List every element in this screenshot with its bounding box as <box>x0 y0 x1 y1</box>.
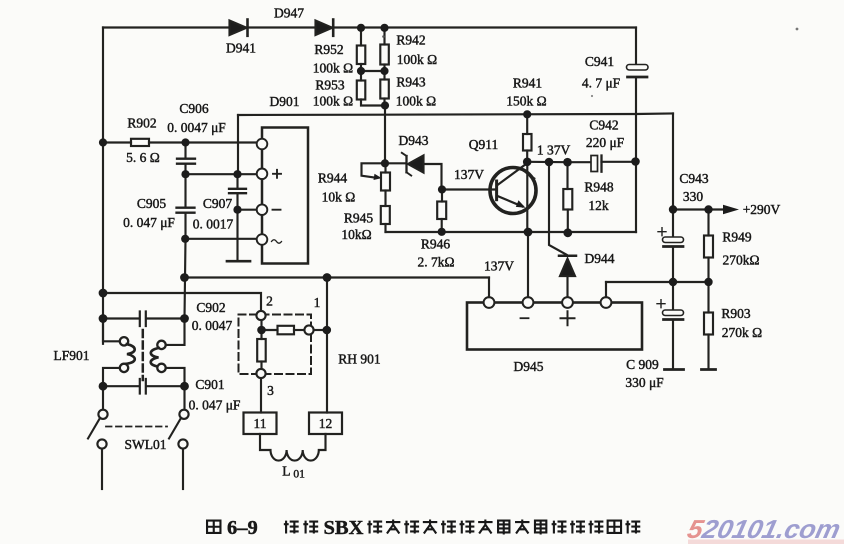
wire bottom rail <box>386 231 637 233</box>
svg-text:D945: D945 <box>514 359 544 374</box>
relay/PTC RH901 dashed box <box>239 315 312 375</box>
wire mid rail (D945 to caps) <box>606 281 709 283</box>
transistor Q911 <box>490 162 537 232</box>
svg-text:R953: R953 <box>315 78 345 93</box>
resistor R948 <box>563 162 572 233</box>
capacitor C943 <box>658 228 684 310</box>
svg-text:SBX: SBX <box>324 517 364 539</box>
svg-text:R949: R949 <box>722 230 752 245</box>
svg-text:R952: R952 <box>314 42 343 57</box>
svg-text:R946: R946 <box>421 237 451 252</box>
svg-text:1 37V: 1 37V <box>537 143 571 158</box>
watermark pink strip <box>688 540 844 544</box>
svg-text:3: 3 <box>267 383 274 398</box>
svg-text:D941: D941 <box>226 41 256 56</box>
svg-text:270kΩ: 270kΩ <box>722 253 759 268</box>
svg-text:5. 6 Ω: 5. 6 Ω <box>126 150 160 165</box>
svg-text:C942: C942 <box>589 118 618 133</box>
svg-text:D943: D943 <box>399 133 429 148</box>
svg-text:100k Ω: 100k Ω <box>397 52 437 67</box>
svg-text:137V: 137V <box>454 167 484 182</box>
svg-text:270k Ω: 270k Ω <box>722 325 762 340</box>
svg-text:137V: 137V <box>484 259 514 274</box>
terminal box 11 <box>244 413 277 435</box>
capacitor C902 <box>103 312 185 327</box>
wire D945 t2 riser (to bottom rail) <box>527 232 529 297</box>
svg-text:0. 047 μF: 0. 047 μF <box>189 398 241 413</box>
RH901 internal horizontal element <box>262 320 305 334</box>
wire Q911 base <box>442 188 495 190</box>
svg-text:0. 0017: 0. 0017 <box>193 217 234 232</box>
resistor R902 <box>103 139 257 146</box>
LF901 left winding <box>120 337 135 372</box>
capacitor C905 <box>177 174 195 239</box>
svg-text:C902: C902 <box>196 300 225 315</box>
resistor R945 <box>381 206 390 232</box>
RH901 pin 3 <box>256 369 265 378</box>
bridge rectifier D901 <box>257 128 308 264</box>
resistor R952 <box>357 28 366 72</box>
svg-text:0. 0047: 0. 0047 <box>192 318 233 333</box>
wire emitter-follower node to D944 <box>549 162 567 255</box>
svg-text:R941: R941 <box>513 76 542 91</box>
resistor R903 <box>702 282 716 370</box>
svg-text:12k: 12k <box>588 198 609 213</box>
svg-text:4. 7 μF: 4. 7 μF <box>582 76 621 91</box>
svg-text:2: 2 <box>266 294 273 309</box>
svg-text:520101.com: 520101.com <box>685 514 844 544</box>
svg-text:C 909: C 909 <box>626 357 659 372</box>
wire D945 t1 riser <box>488 278 490 298</box>
wire C907 ground stub <box>227 210 250 262</box>
svg-text:R944: R944 <box>318 171 348 186</box>
wire 137V line to D945 <box>185 276 490 278</box>
wire top rail <box>103 26 636 28</box>
LF901 core <box>142 330 145 380</box>
svg-text:SWL01: SWL01 <box>125 437 167 452</box>
svg-text:220 μF: 220 μF <box>586 135 625 150</box>
svg-text:100k Ω: 100k Ω <box>396 94 436 109</box>
diode D944 <box>559 256 576 297</box>
svg-text:10k Ω: 10k Ω <box>322 190 356 205</box>
svg-text:Q911: Q911 <box>469 137 499 152</box>
svg-text:C943: C943 <box>679 171 709 186</box>
wire internal circle to pin1 column <box>314 329 327 331</box>
svg-text:R948: R948 <box>584 180 614 195</box>
wire D901 plus line <box>186 173 257 175</box>
terminal box 12 <box>309 413 342 435</box>
svg-text:D944: D944 <box>585 251 615 266</box>
bridge rectifier D945 <box>467 297 642 349</box>
wire right column x=673 <box>672 114 674 238</box>
wire D901 minus line <box>238 209 257 211</box>
svg-text:LF901: LF901 <box>53 348 89 363</box>
svg-text:R943: R943 <box>396 75 426 90</box>
potentiometer R944 <box>362 163 391 206</box>
capacitor C909 <box>657 300 684 370</box>
diode D947 <box>316 20 334 36</box>
svg-text:C901: C901 <box>195 377 224 392</box>
wire +290V rail y=114 <box>238 114 673 116</box>
degaussing coil L01 <box>260 434 326 461</box>
wire 137V collector line <box>527 161 567 164</box>
RH901 pin 2 <box>256 311 265 320</box>
wire mid link R952-R942 <box>361 70 385 72</box>
svg-text:100k Ω: 100k Ω <box>313 94 353 109</box>
svg-text:0. 047 μF: 0. 047 μF <box>123 215 175 230</box>
diode D941 <box>230 20 248 36</box>
capacitor C901 <box>103 379 185 394</box>
capacitor C906 <box>177 143 195 175</box>
capacitor C941 <box>627 28 649 162</box>
svg-text:C941: C941 <box>585 54 614 69</box>
svg-text:R942: R942 <box>396 33 425 48</box>
svg-text:2. 7kΩ: 2. 7kΩ <box>417 255 454 270</box>
RH901 internal terminal circle <box>304 325 313 334</box>
resistor R949 <box>704 210 713 283</box>
wire D901 ac2 line <box>185 238 257 240</box>
svg-text:C905: C905 <box>137 196 167 211</box>
svg-text:D947: D947 <box>274 6 304 21</box>
zener diode D943 <box>389 153 442 188</box>
wire C905 column continues down <box>185 239 186 319</box>
svg-text:0. 0047 μF: 0. 0047 μF <box>167 120 226 135</box>
svg-text:330: 330 <box>683 189 704 204</box>
LF901 right winding <box>151 319 185 387</box>
switch SWL01 <box>88 386 189 489</box>
svg-text:100k Ω: 100k Ω <box>313 61 353 76</box>
wire +290V line with arrow <box>673 205 739 214</box>
svg-text:10kΩ: 10kΩ <box>341 227 371 242</box>
scan specks <box>382 35 385 38</box>
capacitor C907 <box>229 174 246 210</box>
wire D945 t4 riser <box>605 282 607 297</box>
resistor R943 <box>380 71 389 106</box>
wire pin1 column <box>326 278 328 413</box>
wire rail corner down to D901 plus <box>237 115 239 174</box>
svg-text:11: 11 <box>254 416 267 431</box>
svg-text:R945: R945 <box>344 211 374 226</box>
svg-text:330 μF: 330 μF <box>625 375 664 390</box>
resistor R953 <box>357 71 385 106</box>
watermark 520101.com <box>685 514 844 544</box>
svg-text:150k Ω: 150k Ω <box>506 94 546 109</box>
wire left main vertical <box>102 28 104 344</box>
svg-text:RH 901: RH 901 <box>338 352 380 367</box>
line filter LF901 left column <box>103 319 120 342</box>
resistor R942 <box>380 28 389 72</box>
resistor R946 <box>437 190 446 233</box>
svg-text:12: 12 <box>319 416 333 431</box>
caption chinese title <box>284 517 640 539</box>
svg-text:C906: C906 <box>179 101 209 116</box>
capacitor C942 <box>568 156 636 172</box>
svg-text:+290V: +290V <box>743 202 781 217</box>
svg-text:C907: C907 <box>203 196 233 211</box>
wire right box edge down to bottom rail <box>635 162 637 233</box>
RH901 internal vertical element <box>257 330 266 369</box>
wire pin3 to box 11 <box>260 378 262 412</box>
svg-text:D901: D901 <box>270 94 300 109</box>
wire divider to D943 node (crosses +290V rail, no junction) <box>384 106 386 164</box>
svg-text:R903: R903 <box>721 306 751 321</box>
svg-text:1: 1 <box>314 295 321 310</box>
resistor R941 <box>523 115 532 162</box>
caption 图 6-9 <box>207 517 258 539</box>
svg-text:R902: R902 <box>127 116 156 131</box>
svg-text:6–9: 6–9 <box>227 517 258 539</box>
wire AC line to RH901 pin2 <box>103 293 261 311</box>
